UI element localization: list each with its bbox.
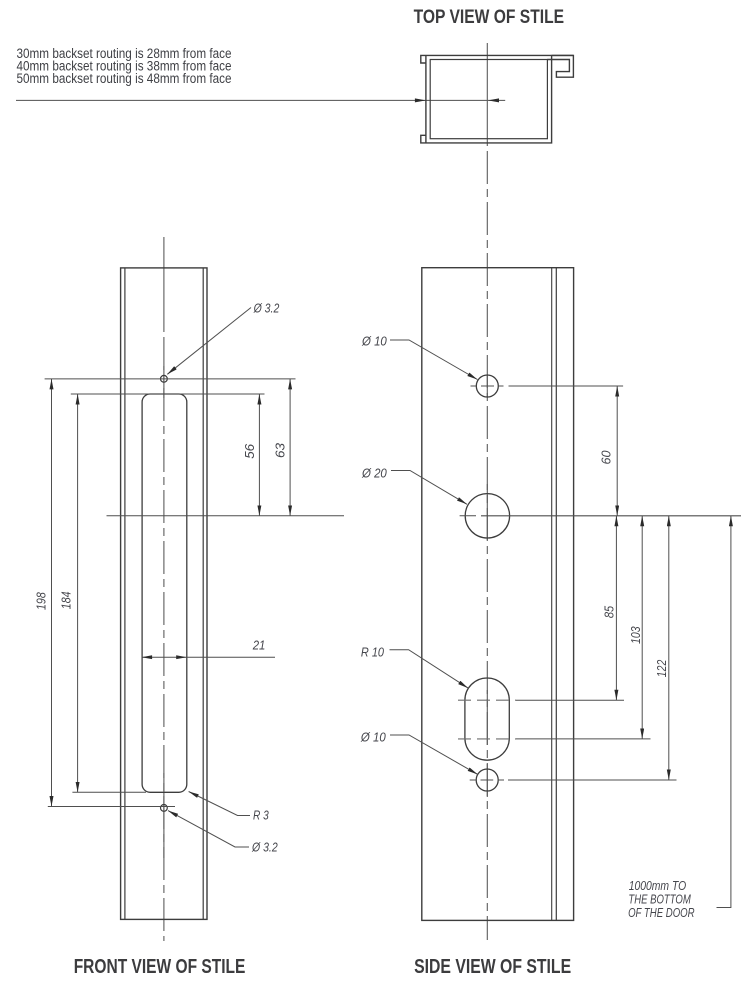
front view top hole (3.2mm) xyxy=(161,375,168,382)
title: side view xyxy=(414,956,571,978)
dimension 85 xyxy=(603,516,617,700)
leader slot radius R3 xyxy=(189,792,269,823)
title: front view xyxy=(74,956,246,978)
extension line top hole center (side) xyxy=(509,385,624,387)
lock centre line (side view, spans drawing) xyxy=(481,515,741,517)
svg-text:THE BOTTOM: THE BOTTOM xyxy=(628,892,691,906)
extension line obround bottom center xyxy=(458,738,651,740)
svg-text:1000mm TO: 1000mm TO xyxy=(629,879,687,893)
svg-text:103: 103 xyxy=(629,626,643,643)
side view outer profile xyxy=(422,268,574,921)
extension line obround top center xyxy=(458,699,624,701)
title: top view xyxy=(414,6,564,28)
note: 1000mm to the bottom of the door xyxy=(628,879,695,920)
front view routing slot xyxy=(142,394,187,792)
extension line bottom hole center xyxy=(48,806,175,808)
svg-text:56: 56 xyxy=(243,444,257,459)
svg-text:FRONT VIEW OF STILE: FRONT VIEW OF STILE xyxy=(74,956,246,978)
svg-text:85: 85 xyxy=(603,606,617,618)
top view outer profile with left lips xyxy=(421,55,574,142)
svg-text:50mm backset routing is 48mm f: 50mm backset routing is 48mm from face xyxy=(17,71,232,86)
dimension 122 xyxy=(655,516,669,780)
side view inner wall lines xyxy=(552,268,557,921)
side view obround slot R10 xyxy=(465,678,509,760)
svg-text:60: 60 xyxy=(600,450,614,464)
extension line top hole center xyxy=(45,378,296,380)
centerline: front view xyxy=(163,237,165,941)
dimension 21 xyxy=(142,638,275,659)
svg-text:Ø 20: Ø 20 xyxy=(361,467,387,481)
extension line slot bottom xyxy=(72,791,146,793)
dimension 63 xyxy=(274,379,291,516)
svg-text:TOP VIEW OF STILE: TOP VIEW OF STILE xyxy=(414,6,564,28)
dimension line 1000mm to bottom of door xyxy=(717,516,731,908)
side view lock hole 20mm xyxy=(460,494,510,538)
svg-text:122: 122 xyxy=(655,660,669,678)
top view inner profile xyxy=(430,60,547,139)
svg-text:Ø 10: Ø 10 xyxy=(360,731,386,745)
dimension 184 xyxy=(60,394,78,792)
svg-text:Ø 3.2: Ø 3.2 xyxy=(253,302,280,316)
dimension 198 xyxy=(34,379,51,807)
svg-text:Ø 10: Ø 10 xyxy=(361,335,387,349)
dimension 60 xyxy=(600,386,618,516)
leader side top hole diameter 10 xyxy=(361,335,477,380)
svg-text:184: 184 xyxy=(60,591,74,609)
front view bottom hole (3.2mm) xyxy=(161,805,168,812)
svg-text:198: 198 xyxy=(34,592,48,610)
backset dimension arrow line xyxy=(16,98,505,102)
side view bottom hole 10mm xyxy=(476,769,498,791)
centerline: top and side view xyxy=(486,43,488,940)
svg-text:OF THE DOOR: OF THE DOOR xyxy=(628,906,695,920)
front view outer profile xyxy=(121,268,207,920)
svg-text:Ø 3.2: Ø 3.2 xyxy=(251,840,278,854)
dimension 56 xyxy=(243,394,260,516)
svg-text:63: 63 xyxy=(274,443,288,458)
extension line slot top xyxy=(71,393,265,395)
side view top hole 10mm xyxy=(471,375,504,397)
extension line lock centre (front view) xyxy=(107,515,345,517)
front view inner wall lines xyxy=(125,268,203,920)
leader obround radius R10 xyxy=(361,645,468,688)
svg-text:21: 21 xyxy=(252,638,266,652)
leader bottom hole diameter 3.2 xyxy=(168,811,278,855)
dimension 103 xyxy=(629,516,643,739)
svg-text:R 3: R 3 xyxy=(253,809,269,823)
svg-text:R 10: R 10 xyxy=(361,645,384,659)
backset routing note text xyxy=(17,46,232,86)
leader top hole diameter 3.2 xyxy=(167,302,279,375)
top view glazing hook xyxy=(547,55,573,77)
extension line bottom hole center (side) xyxy=(470,779,677,781)
leader lock hole diameter 20 xyxy=(361,467,467,505)
svg-text:SIDE VIEW OF STILE: SIDE VIEW OF STILE xyxy=(414,956,571,978)
leader side bottom hole diameter 10 xyxy=(360,731,478,775)
